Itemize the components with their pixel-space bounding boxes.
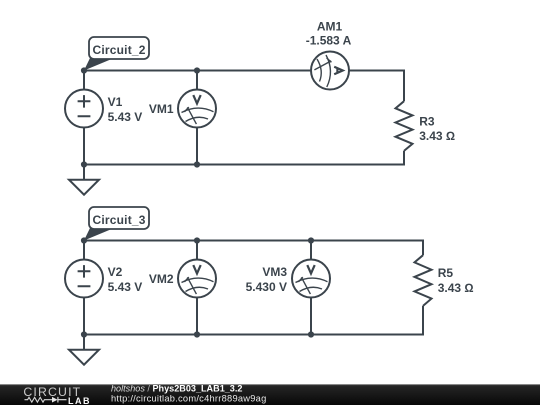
wire: V1 branch vertical: [83, 71, 85, 180]
voltage source V2: [65, 260, 103, 298]
wire: bottom net of Circuit_3 (ground net): [84, 306, 423, 335]
resistor R5: [415, 255, 432, 306]
junction: node A top-left of Circuit_2: [81, 67, 87, 73]
CircuitLab logo wordmark CIRCUIT: [23, 385, 81, 399]
ground symbol of Circuit_2: [69, 180, 99, 195]
svg-text:3.43 Ω: 3.43 Ω: [438, 281, 474, 295]
wire: VM1 branch vertical: [196, 71, 198, 165]
junction: VM3 bottom node: [308, 331, 314, 337]
footer bar: [0, 384, 540, 405]
svg-text:3.43 Ω: 3.43 Ω: [419, 129, 455, 143]
CircuitLab logo wordmark LAB: [68, 396, 91, 405]
junction: VM1 bottom node: [194, 161, 200, 167]
svg-text:holtshos / Phys2B03_LAB1_3.2: holtshos / Phys2B03_LAB1_3.2: [111, 384, 242, 394]
label R5: [438, 266, 454, 280]
value label V2 5.43 V: [108, 280, 143, 294]
label VM1: [149, 102, 174, 116]
flag label Circuit_3 (callout): [84, 207, 149, 241]
value label R3 3.43 Ω: [419, 129, 455, 143]
label V2: [108, 265, 123, 279]
junction: VM1 top node: [194, 67, 200, 73]
label AM1: [317, 20, 343, 34]
value label VM3 5.430 V: [246, 280, 287, 294]
value label R5 3.43 Ω: [438, 281, 474, 295]
junction: VM3 top node: [308, 237, 314, 243]
svg-text:V1: V1: [108, 95, 123, 109]
svg-text:V2: V2: [108, 265, 123, 279]
footer attribution line: holtshos / Phys2B03_LAB1_3.2: [111, 384, 242, 394]
wire: top net of Circuit_2 from node A to R3 corner: [84, 71, 404, 102]
junction: V2 top node: [81, 237, 87, 243]
svg-text:VM2: VM2: [149, 272, 174, 286]
label VM3: [262, 265, 287, 279]
footer url line: http://circuitlab.com/c4hrr889aw9ag: [111, 394, 267, 404]
svg-text:VM3: VM3: [262, 265, 287, 279]
svg-text:LAB: LAB: [68, 396, 91, 405]
svg-text:AM1: AM1: [317, 20, 343, 34]
label V1: [108, 95, 123, 109]
label VM2: [149, 272, 174, 286]
svg-text:R3: R3: [419, 114, 435, 128]
svg-text:5.43 V: 5.43 V: [108, 110, 143, 124]
svg-text:http://circuitlab.com/c4hrr889: http://circuitlab.com/c4hrr889aw9ag: [111, 394, 267, 404]
voltage source V1: [65, 90, 103, 128]
junction: VM2 top node: [194, 237, 200, 243]
value label AM1 -1.583 A: [306, 34, 352, 48]
svg-text:5.43 V: 5.43 V: [108, 280, 143, 294]
wire: VM3 branch vertical: [310, 241, 312, 335]
flag label Circuit_2 (callout): [84, 37, 149, 71]
value label V1 5.43 V: [108, 110, 143, 124]
svg-text:5.430 V: 5.430 V: [246, 280, 287, 294]
svg-text:VM1: VM1: [149, 102, 174, 116]
wire: VM2 branch vertical: [196, 241, 198, 335]
voltmeter VM3: [292, 260, 330, 298]
CircuitLab logo resistor-diode glyph: [25, 397, 67, 403]
junction: VM2 bottom node: [194, 331, 200, 337]
resistor R3: [396, 101, 413, 151]
svg-text:Circuit_2: Circuit_2: [93, 43, 146, 57]
wire: bottom net of Circuit_2 (ground net): [84, 151, 404, 165]
wire: top net of Circuit_3: [84, 241, 423, 256]
ammeter AM1: [311, 52, 349, 90]
ground symbol of Circuit_3: [69, 350, 99, 365]
svg-text:Circuit_3: Circuit_3: [93, 213, 146, 227]
voltmeter VM1: [178, 90, 216, 128]
svg-text:-1.583 A: -1.583 A: [306, 34, 352, 48]
junction: V2 bottom node: [81, 331, 87, 337]
label R3: [419, 114, 435, 128]
junction: V1 bottom node: [81, 161, 87, 167]
voltmeter VM2: [178, 260, 216, 298]
wire: V2 branch vertical: [83, 241, 85, 350]
svg-text:R5: R5: [438, 266, 454, 280]
